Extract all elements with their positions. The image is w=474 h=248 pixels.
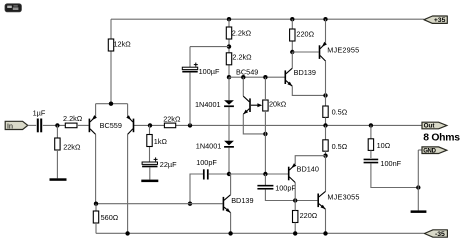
label 1N4001 lower xyxy=(196,141,222,150)
svg-text:20kΩ: 20kΩ xyxy=(269,99,287,108)
capacitor 100pF compensation xyxy=(203,169,209,179)
wire In to C-1uF xyxy=(28,124,36,126)
svg-text:100µF: 100µF xyxy=(199,67,220,76)
svg-text:MJE2955: MJE2955 xyxy=(327,46,359,55)
svg-text:In: In xyxy=(7,123,13,130)
node feedback junction xyxy=(148,123,152,127)
wire MJE3055 collector stub xyxy=(325,156,327,192)
connector +35 xyxy=(424,16,447,24)
transistor MJE3055 xyxy=(317,191,325,209)
resistor 0.5 lower xyxy=(323,140,328,151)
svg-text:220Ω: 220Ω xyxy=(296,29,314,38)
resistor 12k xyxy=(108,39,113,51)
svg-text:-35: -35 xyxy=(435,231,445,238)
node emitter junction xyxy=(109,102,113,106)
ground output xyxy=(411,210,427,213)
wire BD140 emitter link xyxy=(295,156,325,165)
wire 220 lower stubs xyxy=(294,201,296,234)
transistor BC549 vbe multiplier xyxy=(243,96,251,114)
label 22k input xyxy=(63,142,81,151)
node 220 top at rail xyxy=(290,17,294,21)
wire vbe collector stub xyxy=(242,77,244,96)
svg-text:+35: +35 xyxy=(434,17,446,24)
wire BD139 upper collector xyxy=(291,52,293,68)
wire vbe emitter link xyxy=(243,114,265,134)
resistor 0.5 upper xyxy=(323,106,328,117)
label 100nF xyxy=(380,159,401,168)
connector In xyxy=(5,121,28,130)
wire 220 top stubs xyxy=(291,19,293,52)
svg-text:BD140: BD140 xyxy=(297,165,319,174)
resistor 20k trimmer xyxy=(263,100,268,111)
transistor BD139 upper xyxy=(285,68,293,86)
node left collector to base line xyxy=(94,202,98,206)
diode 1N4001 upper xyxy=(224,100,234,107)
label BD140 xyxy=(297,165,319,174)
wire 10 to 100nF xyxy=(370,150,372,158)
wire MJE3055 emitter stub xyxy=(325,209,327,233)
wire diode chain upper xyxy=(228,77,230,100)
svg-text:560Ω: 560Ω xyxy=(101,213,119,222)
wire BD139 lower emitter xyxy=(230,213,232,234)
node MJE3055 emitter at rail xyxy=(323,231,327,235)
svg-text:1N4001: 1N4001 xyxy=(195,100,221,109)
wire BC559 left emitter stub xyxy=(95,104,97,117)
node between 2.2k resistors xyxy=(227,44,231,48)
svg-text:MJE3055: MJE3055 xyxy=(327,192,359,201)
capacitor 100nF xyxy=(364,159,379,164)
resistor 22k input xyxy=(55,138,60,150)
capacitor 1uF xyxy=(37,119,42,133)
wire 2.2k chain xyxy=(228,19,230,77)
node right collector to rail xyxy=(125,231,129,235)
wire 2.2k to BC559 base xyxy=(77,124,89,126)
node feedback right junction xyxy=(188,123,192,127)
resistor 2.2k input xyxy=(65,123,77,128)
node BD140 emitter junction xyxy=(323,154,327,158)
svg-text:2.2kΩ: 2.2kΩ xyxy=(63,114,83,123)
connector Out xyxy=(422,122,447,130)
node input junction xyxy=(55,123,59,127)
label 12k xyxy=(114,39,132,48)
svg-text:Out: Out xyxy=(424,123,436,130)
resistor 2.2k lower xyxy=(226,53,231,65)
wire -35 bottom rail xyxy=(96,232,424,234)
wire 100pF right to diode node xyxy=(209,173,229,175)
wire MJE2955 collector stub xyxy=(325,61,327,95)
ground input xyxy=(50,178,67,181)
transistor BC559 left xyxy=(89,115,97,134)
svg-text:2.2kΩ: 2.2kΩ xyxy=(232,29,252,38)
label 1N4001 upper xyxy=(195,100,221,109)
transistor BC559 right xyxy=(126,115,134,134)
label MJE3055 xyxy=(327,192,359,201)
label BD139 upper xyxy=(294,68,316,77)
wire node down to 22k xyxy=(56,125,58,138)
wire BC559 left collector down xyxy=(95,134,97,203)
wire emitter rail BC559 xyxy=(96,103,128,105)
node BD139 emitter to output vertical xyxy=(323,93,327,97)
wire main mid line (feedback/output) xyxy=(134,124,422,126)
label BC559 xyxy=(100,121,122,130)
label 220 top xyxy=(296,29,314,38)
label 22k feedback xyxy=(163,114,181,123)
label 2.2k lower xyxy=(232,52,252,61)
label 2.2k upper xyxy=(232,29,252,38)
wire 560 upper stub xyxy=(95,204,97,211)
wire 100pF2 upper xyxy=(264,174,266,185)
label 560 xyxy=(101,213,119,222)
svg-text:22µF: 22µF xyxy=(160,160,177,169)
svg-text:100nF: 100nF xyxy=(380,159,401,168)
wire 100nF to gnd line xyxy=(371,163,418,187)
svg-text:BC559: BC559 xyxy=(100,121,122,130)
node bias rail left xyxy=(227,75,231,79)
node MJE2955 emitter at rail xyxy=(323,17,327,21)
ground 22uF xyxy=(141,180,158,183)
wire BC559 right emitter stub xyxy=(127,104,129,117)
resistor 10 xyxy=(368,139,373,151)
svg-text:0.5Ω: 0.5Ω xyxy=(332,108,348,117)
connector -35 xyxy=(424,230,447,238)
svg-text:2.2kΩ: 2.2kΩ xyxy=(232,52,252,61)
wire bootstrap branch xyxy=(190,47,229,68)
label 100pF second xyxy=(275,183,296,192)
wire gnd down to ground xyxy=(417,188,419,211)
wire diode chain lower xyxy=(228,148,230,175)
svg-text:1kΩ: 1kΩ xyxy=(154,137,168,146)
svg-text:BD139: BD139 xyxy=(294,68,316,77)
wire 100pF2 to MJE3055 base xyxy=(265,189,317,200)
wire lower bias line xyxy=(229,173,288,175)
label 100uF xyxy=(199,67,220,76)
svg-text:22kΩ: 22kΩ xyxy=(163,114,181,123)
node 220 lower to rail xyxy=(293,231,297,235)
node MJE3055 base junction xyxy=(293,198,297,202)
svg-text:12kΩ: 12kΩ xyxy=(114,39,132,48)
label 10 xyxy=(377,141,391,150)
resistor 1k xyxy=(147,135,152,147)
wire MJE2955 emitter stub xyxy=(325,19,327,43)
node MJE2955 base junction xyxy=(290,50,294,54)
node lower bias right xyxy=(263,172,267,176)
node 20k top junction xyxy=(263,75,267,79)
wire BD140 collector xyxy=(294,183,296,201)
label 20k xyxy=(269,99,287,108)
svg-text:22kΩ: 22kΩ xyxy=(63,142,81,151)
wire between diodes xyxy=(228,107,230,141)
connector GND xyxy=(422,147,447,155)
capacitor 100pF second xyxy=(257,185,273,190)
transistor BD140 xyxy=(288,163,297,182)
label BC549 xyxy=(236,67,258,76)
node 100pF to base line xyxy=(188,202,192,206)
trimmer wiper arrow xyxy=(251,103,262,107)
label 1k xyxy=(154,137,168,146)
wire BD139 lower collector xyxy=(230,174,232,195)
svg-text:8 Ohms: 8 Ohms xyxy=(423,133,460,144)
wire 100pF left leg xyxy=(190,174,203,204)
svg-text:1N4001: 1N4001 xyxy=(196,141,222,150)
node zobel junction xyxy=(369,123,373,127)
transistor BD139 lower xyxy=(223,195,231,213)
resistor 220 lower xyxy=(293,211,298,223)
wire 20k chain down xyxy=(264,111,266,174)
capacitor 100uF electrolytic xyxy=(182,63,198,73)
wire 22k to ground xyxy=(56,150,58,178)
node output junction xyxy=(323,123,327,127)
node vbe collector junction xyxy=(241,75,245,79)
label 2.2k input xyxy=(63,114,83,123)
label 220 lower xyxy=(300,211,318,220)
wire 560 lower stub xyxy=(95,223,97,233)
resistor 2.2k upper xyxy=(226,27,231,39)
wire BD139 lower base xyxy=(96,203,223,205)
wire 20k top stub xyxy=(264,77,266,100)
resistor 220 top xyxy=(290,29,295,41)
wire mid to 0.5 lower xyxy=(325,125,327,139)
node 2.2k chain top xyxy=(227,17,231,21)
svg-text:1µF: 1µF xyxy=(33,109,46,118)
node gnd junction xyxy=(416,185,420,189)
label BD139 lower xyxy=(231,196,253,205)
svg-text:100pF: 100pF xyxy=(275,183,296,192)
wire MJE2955 base link xyxy=(292,51,318,53)
transistor MJE2955 xyxy=(319,42,327,61)
wire 100uF to feedback node xyxy=(189,73,191,126)
wire BC559 right collector down xyxy=(127,134,129,233)
wire gnd tag drop xyxy=(418,150,422,188)
wire 12k chain xyxy=(110,19,112,104)
label 0.5 upper xyxy=(332,108,348,117)
svg-text:BD139: BD139 xyxy=(231,196,253,205)
wire 22uF to ground xyxy=(149,167,151,179)
resistor 22k feedback xyxy=(164,123,175,128)
wire bias rail xyxy=(229,76,285,78)
wire 1k chain xyxy=(149,125,151,162)
svg-text:0.5Ω: 0.5Ω xyxy=(332,142,348,151)
svg-text:10Ω: 10Ω xyxy=(377,141,391,150)
svg-text:100pF: 100pF xyxy=(196,158,217,167)
label 1uF xyxy=(33,109,46,118)
svg-text:220Ω: 220Ω xyxy=(300,211,318,220)
label MJE2955 xyxy=(327,46,359,55)
node BD139 lower emitter to rail xyxy=(228,231,232,235)
wire 0.5 upper to mid xyxy=(325,117,327,125)
label 22uF xyxy=(160,160,177,169)
wire zobel upper xyxy=(370,125,372,138)
label 100pF compensation xyxy=(196,158,217,167)
wire output vertical upper xyxy=(325,95,327,106)
wire +35 top rail xyxy=(111,18,424,20)
node lower bias left xyxy=(227,172,231,176)
wire 0.5 lower to node xyxy=(325,151,327,156)
label 0.5 lower xyxy=(332,142,348,151)
wire BD139 upper emitter xyxy=(292,86,325,95)
wire C-1uF to node xyxy=(43,124,65,126)
svg-text:GND: GND xyxy=(423,148,436,154)
diode 1N4001 lower xyxy=(224,141,234,148)
svg-text:BC549: BC549 xyxy=(236,67,258,76)
capacitor 22uF electrolytic xyxy=(142,157,158,167)
logo badge xyxy=(5,4,21,12)
resistor 560 xyxy=(93,211,98,223)
label 8 Ohms xyxy=(423,133,460,144)
node vbe emitter to 20k xyxy=(263,132,267,136)
